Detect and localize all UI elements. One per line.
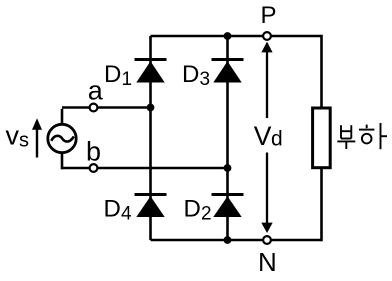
junction top rail [224,32,232,40]
label 부하 (load) drawn as strokes [337,123,387,149]
svg-text:d: d [271,127,283,150]
svg-text:3: 3 [200,69,211,90]
wire load column top [320,35,323,107]
diode D1 [135,60,167,83]
wire bottom rail N [151,239,322,242]
node P terminal [263,32,271,40]
terminal a [90,104,98,112]
svg-text:P: P [261,2,277,29]
node N terminal [263,236,271,244]
svg-text:V: V [254,121,272,151]
Vd arrow [261,42,272,233]
svg-text:D: D [182,61,199,88]
svg-text:D: D [104,196,121,223]
load (부하) resistor box [313,108,331,168]
AC source vs [48,124,76,152]
diode D4 [135,195,167,218]
wire left leg D1-D4 [149,36,152,240]
svg-text:v: v [6,121,20,151]
svg-text:4: 4 [121,204,132,225]
wire source bottom [61,152,64,169]
wire right leg D3-D2 [226,36,229,240]
wire top rail P [151,35,322,38]
junction bottom rail [224,236,232,244]
svg-text:2: 2 [201,204,212,225]
svg-text:b: b [86,137,101,167]
junction a-leg [147,104,155,112]
junction b-leg [224,164,232,172]
wire b [62,167,228,170]
svg-text:1: 1 [122,69,133,90]
diode D2 [212,195,244,218]
terminal b [90,164,98,172]
svg-text:D: D [104,61,121,88]
wire a [62,106,151,109]
svg-text:N: N [258,247,277,277]
svg-text:D: D [184,196,201,223]
svg-text:a: a [88,76,104,106]
wire load column bottom [320,169,323,241]
diode D3 [212,60,244,83]
svg-text:s: s [19,130,29,152]
vs arrow [32,118,42,157]
wire source top [61,109,64,125]
